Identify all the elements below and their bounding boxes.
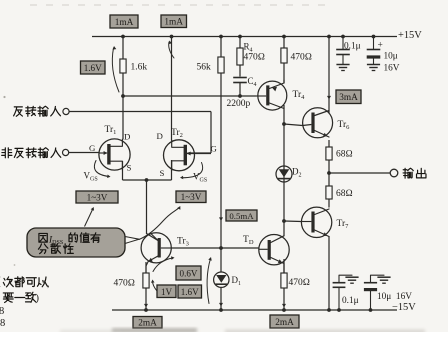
junction dot Tr7 base tap <box>282 219 286 223</box>
label shuchu output <box>403 168 413 178</box>
svg-text:G: G <box>89 143 96 153</box>
wire TD emitter to 470 <box>283 259 285 273</box>
wire source node down to Tr3 collector <box>146 180 148 234</box>
junction dots on bottom rail <box>144 308 148 312</box>
label feifanzhuan shuru non-inverting input <box>2 148 12 158</box>
voltage label 1-3V left <box>76 191 118 203</box>
scan speck left margin <box>3 96 5 98</box>
svg-text:0.1μ: 0.1μ <box>344 41 361 51</box>
callout tail right <box>125 237 139 244</box>
svg-text:470Ω: 470Ω <box>289 278 311 288</box>
svg-text:0.5mA: 0.5mA <box>229 211 254 221</box>
ground symbol bottom 10u <box>377 276 390 278</box>
resistor 1.6k <box>120 59 126 73</box>
svg-text:470Ω: 470Ω <box>114 279 136 289</box>
svg-text:S: S <box>160 168 165 178</box>
voltage label 1-3V right <box>176 191 206 203</box>
terminal non-inverting input <box>63 149 69 155</box>
junction dot rail x221 <box>219 35 223 39</box>
svg-text:D: D <box>124 132 130 142</box>
svg-text:2mA: 2mA <box>138 319 157 329</box>
wire Tr7 collector to rail <box>328 236 330 310</box>
svg-text:1V: 1V <box>161 287 173 297</box>
transistor Tr7 PNP output <box>301 207 331 237</box>
wire Tr7 base <box>284 220 302 223</box>
junction dot Tr6 base tap <box>282 122 286 126</box>
resistor 470 ohm Tr3 emitter <box>143 273 149 288</box>
terminal output <box>390 169 398 177</box>
svg-text:−15V: −15V <box>392 302 416 313</box>
terminal inverting input <box>63 108 69 114</box>
diode D2 <box>276 166 292 182</box>
annotation arrow 0.5mA down <box>219 217 223 221</box>
svg-text:1.6k: 1.6k <box>131 63 148 73</box>
annotation arrow Tr3 emitter down <box>144 304 148 308</box>
svg-text:10μ: 10μ <box>384 52 398 62</box>
svg-text:0.6V: 0.6V <box>180 269 198 279</box>
resistor R4 470 ohm <box>239 37 241 49</box>
junction dot C4 tap <box>238 94 242 98</box>
wire Tr6 base <box>284 124 303 126</box>
callout leader to left 1-3V <box>85 209 94 227</box>
svg-text:D: D <box>157 131 163 141</box>
svg-text:1~3V: 1~3V <box>87 193 108 203</box>
current label 3mA <box>336 90 361 104</box>
svg-text:0.1μ: 0.1μ <box>342 296 359 306</box>
diode D1 <box>214 272 229 287</box>
svg-text:3mA: 3mA <box>339 93 358 103</box>
svg-text:2200p: 2200p <box>227 99 251 109</box>
svg-text:68Ω: 68Ω <box>336 150 353 160</box>
transistor TD bias NPN <box>259 235 289 265</box>
capacitor 10u 16V top electrolytic <box>373 37 375 50</box>
annotation arrow beside 470 Tr3 <box>153 281 158 291</box>
wire Tr2 drain leg <box>171 37 173 141</box>
wire diff sources join <box>122 161 124 180</box>
svg-text:10μ 16V: 10μ 16V <box>377 292 412 302</box>
annotation arrow 1mA left leg <box>112 48 119 92</box>
transistor Tr4 PNP <box>258 81 287 110</box>
annotation arc VGS right <box>182 163 203 178</box>
wire Tr6 collector leg from rail <box>328 37 330 114</box>
svg-text:1mA: 1mA <box>164 18 183 28</box>
capacitor C4 2200p <box>233 77 247 79</box>
voltage label 1.6V top-left <box>81 61 106 74</box>
JFET Tr2 <box>164 140 195 171</box>
svg-text:,: , <box>47 279 50 290</box>
svg-text:): ) <box>36 293 40 304</box>
svg-text:G: G <box>211 144 218 154</box>
annotation arc VGS left <box>94 161 109 177</box>
wire Tr1 drain to Tr4 base horizontal <box>123 95 257 97</box>
voltage label 1.6V bottom <box>178 285 202 298</box>
annotation arc beside D1 <box>207 259 210 304</box>
wire D1 leg <box>220 248 222 272</box>
ground symbol bottom 0.1u <box>345 276 358 278</box>
wire output line <box>329 172 390 174</box>
wire Tr6 emitter to 68 ohm <box>328 140 330 147</box>
scan smudge bottom edge <box>60 328 425 334</box>
svg-text:8: 8 <box>0 306 4 317</box>
wire -15V bottom supply rail <box>112 309 397 311</box>
current label 1mA left <box>110 15 138 28</box>
voltage label 1V <box>157 285 176 298</box>
resistor 470 ohm Tr4 emitter <box>283 37 285 49</box>
annotation arrow 3mA down <box>327 96 331 100</box>
resistor 68 ohm lower <box>328 173 330 186</box>
wire Tr3 emitter to 470 <box>145 262 147 273</box>
svg-text:470Ω: 470Ω <box>291 53 313 63</box>
svg-text:1mA: 1mA <box>115 18 134 28</box>
annotation arrow TD emitter down <box>282 304 286 308</box>
svg-text:1~3V: 1~3V <box>181 192 202 202</box>
resistor 56k <box>218 57 224 73</box>
resistor 470 ohm TD emitter <box>281 273 287 288</box>
svg-text:1.6V: 1.6V <box>84 63 102 73</box>
svg-text:16V: 16V <box>384 64 400 74</box>
wire Tr1 drain leg with 1.6k <box>122 37 124 60</box>
JFET Tr1 <box>99 139 130 170</box>
svg-text:68Ω: 68Ω <box>336 189 353 199</box>
voltage label 0.6V <box>176 266 201 280</box>
wire 56k leg <box>220 37 222 58</box>
transistor Tr3 current source NPN <box>141 233 171 263</box>
margin text line1 cut <box>0 277 1 287</box>
resistor 68 ohm upper <box>326 147 332 160</box>
junction dot rail x123 <box>121 35 125 39</box>
wire inverting input line <box>69 111 211 113</box>
svg-text:56k: 56k <box>197 63 212 73</box>
svg-text:2mA: 2mA <box>275 318 294 328</box>
current label 1mA right <box>161 15 187 28</box>
wire Tr4 collector down to TD <box>283 105 285 236</box>
junction dot Tr1 drain to Tr4 base line <box>121 94 125 98</box>
svg-text:S: S <box>127 163 132 173</box>
annotation arrow 1mA right leg <box>169 42 174 58</box>
svg-text:+15V: +15V <box>398 30 422 41</box>
wire base link Tr3 to TD <box>171 247 259 249</box>
annotation arrow D1 down <box>219 303 223 307</box>
wire non-inverting input line <box>69 152 100 154</box>
wire +15V top supply rail <box>92 36 397 38</box>
svg-text:8: 8 <box>0 318 5 329</box>
junction dot output node <box>327 171 331 175</box>
callout bubble IDSS dispersion note <box>27 228 125 257</box>
transistor Tr6 NPN output <box>303 108 333 138</box>
label fanzhuan shuru inverting input <box>14 107 23 116</box>
capacitor 0.1u bottom <box>338 287 340 310</box>
annotation arc under Tr3 <box>153 258 173 272</box>
capacitor 0.1u top <box>342 37 344 50</box>
ground symbol top 0.1u <box>336 64 349 66</box>
callout leader curve to right 1-3V <box>139 208 180 240</box>
ground symbol top 10u <box>367 64 380 66</box>
junction dot source node <box>145 178 149 182</box>
current label 2mA right <box>270 315 299 328</box>
current label 0.5mA <box>226 210 257 221</box>
current label 2mA left <box>133 317 162 329</box>
svg-text:470Ω: 470Ω <box>244 53 266 63</box>
capacitor 10u 16V bottom electrolytic <box>370 290 372 310</box>
junction dot bias node <box>219 246 223 250</box>
junction dot rail x171 <box>170 35 174 39</box>
svg-text:1.6V: 1.6V <box>181 287 199 297</box>
